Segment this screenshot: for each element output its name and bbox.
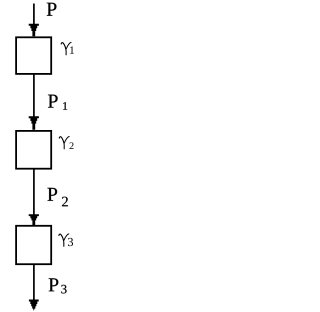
label P3 subscript 3 [61, 285, 66, 294]
label gamma1 subscript 1 [70, 46, 74, 53]
label P3 [49, 278, 59, 291]
label gamma3 subscript 3 [68, 238, 73, 246]
label gamma2 glyph [59, 137, 69, 149]
label P (input) [47, 3, 57, 16]
arrowhead: arrow into box gamma3 [29, 214, 39, 225]
wire: shaft from box gamma2 down to box gamma3 [33, 169, 35, 221]
wire: output arrow shaft carrying P3 out of stage 3 [33, 264, 35, 305]
arrowhead: input arrow into box gamma1 [29, 24, 39, 37]
label gamma3 glyph [59, 234, 69, 246]
box gamma2 (stage 2) [16, 131, 51, 169]
label P1 subscript 1 [63, 102, 67, 110]
wire: input arrow shaft carrying P into stage 1 [33, 4, 35, 34]
box gamma1 (stage 1) [16, 37, 51, 74]
arrowhead: arrow into box gamma2 [29, 116, 39, 130]
arrowhead: output arrow tip [29, 300, 39, 311]
label gamma2 subscript 2 [70, 142, 74, 149]
label P2 subscript 2 [62, 197, 68, 207]
label P2 [47, 188, 57, 201]
box gamma3 (stage 3) [16, 226, 51, 264]
wire: shaft from box gamma1 down to box gamma2 [33, 74, 35, 126]
label gamma1 glyph [61, 42, 71, 54]
label P1 [48, 95, 58, 108]
